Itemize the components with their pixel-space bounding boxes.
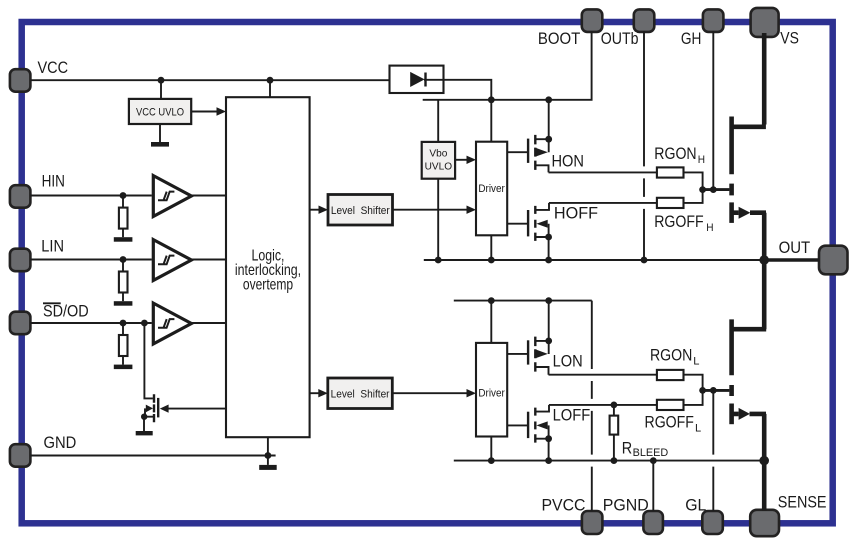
wire LIN to logic — [191, 259, 226, 261]
block logic — [226, 97, 310, 437]
wire logic top drop — [269, 80, 271, 97]
transistor LON — [528, 301, 552, 375]
wire arrow LS2 to driver 2 — [392, 392, 468, 394]
svg-text:H: H — [706, 222, 713, 234]
pin pad SD/OD — [10, 312, 31, 335]
svg-text:VS: VS — [780, 30, 799, 48]
wire HIN to logic — [191, 195, 226, 197]
wire LON out — [549, 374, 657, 376]
resistor LIN pulldown — [122, 260, 124, 272]
wire arrow logic to Q1 gate — [166, 408, 226, 410]
node VCC/logic tap — [267, 77, 274, 84]
diode D1 — [410, 72, 424, 87]
resistor RGOFF_H — [657, 198, 684, 208]
wire PGND rail — [454, 460, 764, 462]
wire RGOFF_H to gate node — [684, 190, 703, 203]
pin pad GND — [10, 444, 31, 467]
node PGND tap — [650, 457, 657, 464]
wire OUT rail — [424, 259, 764, 261]
ground LIN — [114, 301, 133, 306]
node R_BLEED/PGND — [611, 457, 618, 464]
wire Vbo bottom to OUT rail — [437, 179, 439, 260]
node GND/logic — [265, 452, 272, 459]
block driver 1 — [476, 142, 507, 236]
wire gate line L — [703, 389, 730, 392]
wire HON gate — [507, 151, 527, 153]
schmitt trigger HIN — [153, 176, 191, 217]
wire PGND vertical — [652, 461, 654, 511]
wire GND input — [30, 455, 275, 457]
node gate H — [699, 186, 706, 193]
svg-text:SD/OD: SD/OD — [43, 302, 89, 320]
node Vbo/OUT — [435, 257, 442, 264]
svg-text:RGON: RGON — [650, 346, 692, 364]
wire driver1 bottom to OUT rail — [490, 235, 492, 260]
wire GL vertical — [712, 390, 714, 511]
svg-text:GH: GH — [681, 30, 702, 48]
block level shifter 1 — [328, 195, 393, 226]
resistor RGOFF_L — [657, 400, 684, 410]
transistor M2 external low-side — [732, 260, 767, 511]
svg-text:OUTb: OUTb — [601, 30, 639, 48]
wire arrow logic to level shifter 2 — [310, 392, 320, 394]
ground logic — [267, 456, 269, 465]
resistor SD pulldown — [122, 323, 124, 335]
transistor M1 external high-side — [732, 33, 766, 260]
pin pad SENSE — [750, 510, 779, 536]
node gate L — [699, 387, 706, 394]
svg-text:L: L — [693, 355, 699, 367]
transistor Q1 open-drain NMOS — [141, 323, 158, 431]
block level shifter 2 — [328, 378, 393, 409]
wire gate line H — [703, 188, 730, 191]
node driver2/PVCC — [488, 297, 495, 304]
node VCC/UVLO tap — [158, 77, 165, 84]
wire VCC UVLO ground lead — [159, 124, 161, 142]
wire HON out — [549, 171, 657, 173]
svg-text:PGND: PGND — [603, 496, 649, 514]
wire VCC rail — [30, 79, 409, 81]
svg-text:Vbo: Vbo — [429, 148, 447, 159]
wire HOFF out — [549, 202, 657, 204]
transistor HON — [528, 100, 552, 173]
wire PVCC rail — [454, 300, 592, 302]
resistor HIN pulldown — [122, 196, 124, 208]
svg-text:LIN: LIN — [41, 238, 64, 256]
svg-text:BOOT: BOOT — [538, 30, 580, 48]
block driver 2 — [476, 343, 507, 437]
node LON drain/PVCC — [545, 297, 552, 304]
svg-text:Level Shifter: Level Shifter — [331, 389, 390, 401]
wire driver2 bottom to PGND rail — [490, 437, 492, 461]
node SD pulldown tap — [120, 320, 127, 327]
svg-text:GL: GL — [685, 496, 706, 514]
svg-text:HIN: HIN — [42, 173, 65, 191]
schmitt trigger SD — [153, 303, 191, 344]
node HON drain feed — [545, 96, 552, 103]
resistor RGON_L — [657, 370, 684, 380]
resistor R_BLEED — [613, 405, 615, 416]
pin pad HIN — [10, 185, 31, 208]
node HOFF source/OUT — [545, 257, 552, 264]
pin pad BOOT — [582, 9, 603, 32]
pin pad PGND — [643, 511, 663, 534]
node diode/driver feed — [488, 96, 495, 103]
pin pad GL — [702, 511, 723, 534]
wire LON gate — [507, 353, 527, 355]
svg-text:BLEED: BLEED — [633, 447, 669, 459]
ground VCC UVLO — [151, 142, 169, 147]
svg-text:VCC: VCC — [38, 59, 69, 77]
node GH tap — [710, 186, 717, 193]
wire logic bottom to GND — [267, 437, 269, 455]
ground Q1 — [136, 431, 153, 435]
svg-text:Driver: Driver — [478, 387, 505, 399]
wire OUTb vertical — [643, 31, 645, 260]
svg-text:RGON: RGON — [654, 145, 696, 163]
block Vbo UVLO — [422, 142, 455, 179]
wire arrow Vbo to driver — [455, 159, 468, 161]
svg-text:overtemp: overtemp — [243, 277, 293, 294]
wire diode to boot rail — [424, 80, 491, 142]
wire Vbo tap — [437, 100, 439, 142]
wire UVLO drop — [160, 80, 162, 99]
wire LOFF gate — [507, 424, 527, 426]
svg-text:Level Shifter: Level Shifter — [331, 205, 390, 217]
svg-text:RGOFF: RGOFF — [645, 413, 694, 431]
node driver1/OUT — [488, 257, 495, 264]
schmitt trigger LIN — [153, 240, 191, 281]
transistor HOFF — [528, 203, 552, 260]
wire RGOFF_L to gate node — [684, 390, 703, 405]
node HIN pulldown tap — [120, 192, 127, 199]
node SD open-drain tap — [141, 320, 148, 327]
node GL tap — [710, 387, 717, 394]
block VCC UVLO — [129, 99, 191, 124]
ground SD — [114, 365, 133, 370]
svg-text:H: H — [698, 154, 705, 166]
svg-text:LOFF: LOFF — [553, 407, 591, 425]
svg-text:UVLO: UVLO — [425, 161, 453, 172]
node OUTb/OUT — [641, 257, 648, 264]
wire GH vertical — [712, 31, 714, 189]
wire PVCC vertical — [591, 301, 593, 511]
wire LIN input — [30, 259, 151, 261]
pin pad GH — [703, 9, 724, 32]
wire arrow LS1 to driver 1 — [393, 209, 468, 211]
node driver2/PGND — [488, 457, 495, 464]
node SENSE — [759, 456, 769, 466]
wire RGON_L to gate node — [684, 375, 703, 391]
svg-text:VCC UVLO: VCC UVLO — [136, 106, 184, 118]
svg-text:RGOFF: RGOFF — [654, 213, 703, 231]
wire RGON_H to gate node — [684, 172, 703, 189]
wire HIN input — [30, 195, 151, 197]
wire HOFF gate — [507, 223, 527, 225]
svg-text:GND: GND — [44, 434, 77, 452]
pin pad OUTb — [634, 9, 655, 32]
node OUT — [759, 255, 769, 265]
overline SD — [43, 302, 61, 304]
svg-text:R: R — [622, 439, 632, 457]
wire arrow UVLO to logic — [191, 111, 218, 113]
transistor LOFF — [528, 405, 552, 461]
node LOFF source/PGND — [545, 457, 552, 464]
pin pad PVCC — [582, 511, 603, 534]
svg-text:HON: HON — [552, 152, 585, 170]
wire driver2 top to PVCC rail — [490, 301, 492, 343]
svg-text:L: L — [695, 422, 701, 434]
pin pad OUT — [819, 246, 848, 275]
ground HIN — [114, 237, 133, 242]
svg-text:SENSE: SENSE — [778, 493, 827, 511]
wire SD to logic — [191, 322, 226, 324]
svg-text:HOFF: HOFF — [554, 205, 598, 223]
node LIN pulldown tap — [120, 256, 127, 263]
svg-text:PVCC: PVCC — [542, 496, 586, 514]
bootstrap diode box — [390, 66, 444, 93]
pin pad VS — [751, 8, 779, 37]
node R_BLEED tap — [611, 402, 618, 409]
wire SD/OD input — [30, 322, 151, 324]
wire arrow logic to level shifter 1 — [310, 209, 320, 211]
svg-text:Driver: Driver — [478, 183, 505, 195]
resistor RGON_H — [657, 167, 684, 177]
pin pad LIN — [10, 249, 31, 272]
wire OUT to pad — [764, 258, 819, 262]
pin pad VCC — [10, 69, 31, 92]
wire bootstrap rail — [423, 31, 592, 99]
svg-text:LON: LON — [553, 353, 583, 371]
svg-text:OUT: OUT — [779, 239, 811, 257]
wire LOFF out — [549, 404, 657, 406]
